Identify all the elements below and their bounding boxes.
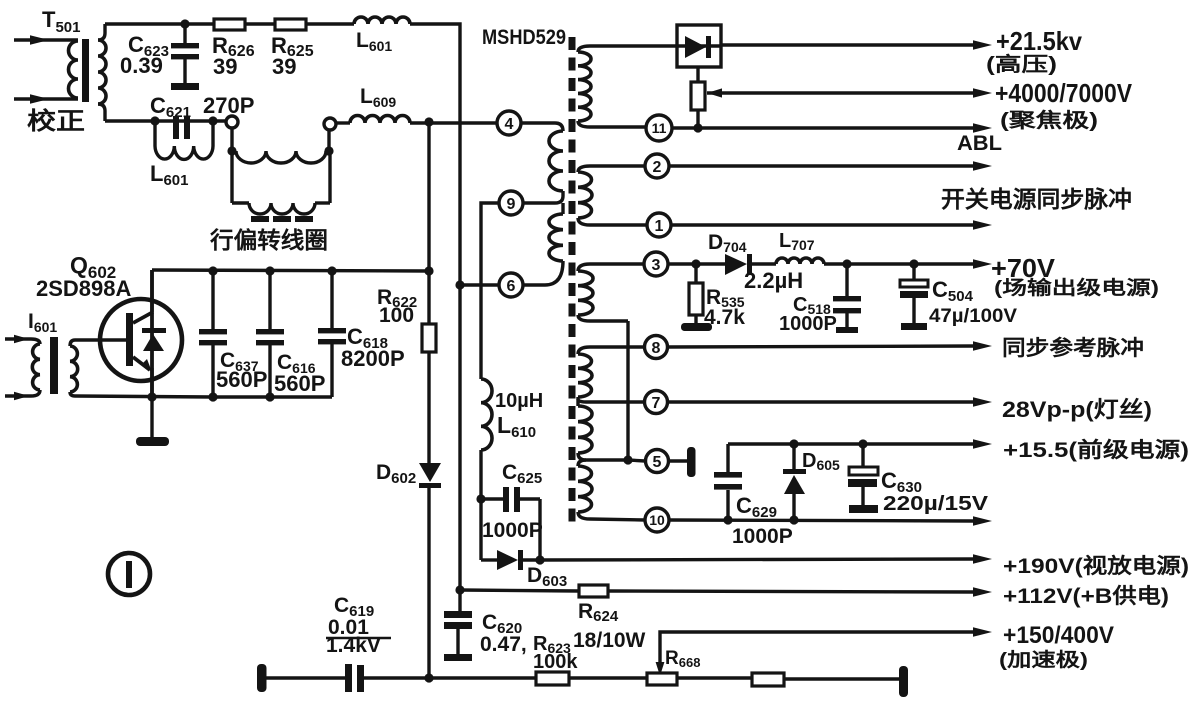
- node junction C629 bottom: [723, 515, 732, 524]
- svg-text:10: 10: [649, 512, 665, 528]
- node junction D605 bottom: [789, 515, 798, 524]
- resistor R624: [579, 585, 608, 597]
- svg-text:5: 5: [653, 454, 662, 471]
- HV rectifier diode block: [677, 25, 721, 67]
- svg-text:6: 6: [507, 278, 516, 295]
- inductor deflection coil upper: [236, 151, 326, 163]
- resistor R625: [275, 19, 306, 30]
- wire pin 7 output: [667, 400, 974, 403]
- flyback secondary winding W4: [578, 347, 645, 354]
- svg-text:28Vp-p(灯丝): 28Vp-p(灯丝): [1002, 397, 1152, 422]
- capacitor C621: [173, 116, 179, 139]
- wire pin 1 output: [671, 223, 974, 226]
- potentiometer focus: [691, 82, 705, 110]
- wire T501 secondary bottom lead: [98, 104, 105, 121]
- capacitor C623: [183, 24, 186, 43]
- pin 10: [645, 508, 669, 532]
- wire +21.5kV output: [721, 43, 974, 46]
- inductor deflection coil lower: [232, 201, 249, 204]
- svg-text:+190V(视放电源): +190V(视放电源): [1003, 554, 1189, 578]
- pin 11: [646, 115, 672, 141]
- wire pin 3 to D704: [668, 262, 725, 265]
- wire collector rail: [152, 270, 429, 271]
- wire emitter down: [150, 368, 153, 397]
- svg-text:+15.5(前级电源): +15.5(前级电源): [1003, 438, 1189, 462]
- svg-text:2: 2: [653, 159, 662, 176]
- svg-text:47µ/100V: 47µ/100V: [929, 306, 1017, 327]
- node junction D605 top: [789, 439, 798, 448]
- svg-text:+150/400V: +150/400V: [1003, 622, 1114, 649]
- transformer T601 primary winding: [31, 339, 40, 344]
- pin 1: [647, 213, 671, 237]
- flyback secondary winding W6: [578, 460, 586, 466]
- pin 2: [645, 154, 669, 178]
- node junction D603 output: [535, 555, 544, 564]
- pin 9: [499, 191, 523, 215]
- wire drive lead arrow 2: [5, 394, 31, 397]
- transformer T601 secondary winding: [70, 340, 75, 346]
- wire +150/400V output: [660, 632, 974, 662]
- node terminal circle right of deflection yoke: [324, 118, 336, 130]
- wire between R626 and R625: [245, 22, 275, 25]
- wire R625 to L601: [306, 22, 354, 25]
- svg-text:同步参考脉冲: 同步参考脉冲: [1002, 336, 1144, 360]
- wire pin 6 to vertical line: [460, 283, 499, 286]
- capacitor C518: [845, 264, 848, 296]
- inductor L610: [481, 379, 492, 450]
- node junction C621 left: [150, 116, 159, 125]
- node junction rail C637 top: [208, 266, 217, 275]
- ground bottom left: [257, 664, 267, 692]
- svg-text:39: 39: [213, 54, 237, 79]
- wire terminal to L609: [336, 121, 350, 124]
- svg-text:8200P: 8200P: [341, 346, 405, 371]
- wire top rail: [105, 22, 214, 25]
- svg-text:8: 8: [652, 340, 661, 357]
- wire to pin 5: [628, 460, 645, 461]
- transformer T501 primary winding: [69, 41, 79, 98]
- wire D704 to L707: [752, 262, 776, 265]
- flyback secondary winding W2: [578, 166, 647, 172]
- svg-text:1: 1: [655, 218, 664, 235]
- svg-text:1.4kV: 1.4kV: [326, 634, 381, 657]
- pin 5: [646, 450, 669, 473]
- pin 8: [645, 336, 668, 359]
- node junction rail C616 top: [265, 266, 274, 275]
- svg-text:(加速极): (加速极): [999, 648, 1088, 671]
- wire +112V line left of R624: [460, 590, 579, 591]
- node junction bottom rail: [424, 673, 433, 682]
- svg-text:+112V(+B供电): +112V(+B供电): [1003, 584, 1169, 608]
- flyback secondary winding W1: [578, 46, 677, 52]
- svg-text:(聚焦极): (聚焦极): [1000, 108, 1098, 132]
- svg-text:校正: 校正: [27, 107, 85, 135]
- pin 7: [645, 391, 668, 414]
- node junction emitter: [147, 392, 156, 401]
- wire bottom rail C619 to R623: [364, 676, 536, 679]
- wire +190V output: [540, 559, 974, 560]
- wire pin 8 output: [667, 346, 974, 347]
- flyback secondary winding W3: [578, 264, 644, 271]
- inductor L609: [350, 116, 410, 123]
- node junction yoke top-left: [227, 146, 236, 155]
- node junction C630 top: [858, 439, 867, 448]
- svg-text:1000P: 1000P: [732, 525, 793, 548]
- inductor L601 damping coil: [153, 121, 156, 146]
- wire collector up to rail: [150, 270, 153, 312]
- flyback primary winding lower: [561, 203, 564, 214]
- svg-text:7: 7: [652, 395, 661, 412]
- capacitor C625: [481, 497, 503, 500]
- svg-text:4: 4: [505, 116, 514, 133]
- pin 6: [499, 273, 523, 297]
- damper diode inside Q602: [142, 328, 166, 333]
- wire pin 9 left and down to L610: [481, 203, 499, 379]
- inductor L601 top: [354, 17, 410, 24]
- resistor R623: [536, 672, 569, 685]
- node junction ABL: [693, 123, 702, 132]
- svg-text:(场输出级电源): (场输出级电源): [994, 276, 1159, 299]
- svg-text:18/10W: 18/10W: [573, 629, 646, 652]
- transformer T501 secondary winding: [98, 40, 106, 104]
- wire base lead: [75, 338, 126, 341]
- wire bottom rail R623 to R668: [569, 676, 647, 679]
- svg-text:2.2µH: 2.2µH: [744, 268, 803, 293]
- symbol circled 1: [108, 553, 150, 595]
- wire bottom rail to right ground: [784, 677, 899, 680]
- capacitor C619: [345, 664, 352, 692]
- capacitor C629: [726, 444, 729, 472]
- wire drive lead arrow 1: [5, 337, 31, 340]
- diode D704: [725, 254, 747, 275]
- wire focus wiper output: [707, 91, 974, 94]
- diode D605: [792, 444, 795, 469]
- svg-text:+21.5kv: +21.5kv: [996, 26, 1082, 56]
- wire emitter to ground: [150, 397, 153, 437]
- wire HV block to focus pot: [696, 67, 699, 82]
- ground below Q602: [136, 437, 169, 446]
- node junction bottom rail C616: [265, 392, 274, 401]
- svg-text:270P: 270P: [203, 93, 254, 118]
- wire W3 bottom down to pin5 node: [626, 321, 629, 460]
- flyback primary winding upper: [549, 131, 563, 191]
- capacitor C504 (electrolytic): [912, 264, 915, 280]
- wire right leg up to terminal: [327, 130, 330, 151]
- wire +70V output: [824, 262, 974, 265]
- transformer T601 core: [50, 337, 58, 394]
- svg-text:1000P: 1000P: [779, 313, 837, 335]
- wire snubber box right side: [538, 499, 541, 560]
- wire R622 to D602: [427, 352, 430, 463]
- inductor L707: [776, 258, 824, 264]
- node junction +112V left: [455, 585, 464, 594]
- wire pin 2 output: [669, 164, 974, 167]
- node junction at L609 / vertical line: [424, 117, 433, 126]
- node junction C621 right: [208, 116, 217, 125]
- flyback secondary winding W5: [578, 406, 592, 453]
- ground bottom right: [899, 666, 908, 697]
- node junction yoke top-right: [324, 146, 333, 155]
- capacitor C616: [268, 271, 271, 329]
- svg-text:10µH: 10µH: [495, 390, 543, 412]
- resistor (unlabeled) on bottom rail: [752, 673, 784, 686]
- wire input lead arrow 2 into T501: [14, 97, 78, 100]
- wire tap to pin 7: [578, 399, 645, 402]
- wire pin 5 to ground: [669, 459, 687, 462]
- pin 3: [644, 252, 668, 276]
- resistor R668: [647, 673, 677, 685]
- wire left leg of deflection yoke: [230, 128, 233, 151]
- wire bottom rail R668 to next resistor: [677, 676, 752, 679]
- resistor R626: [214, 19, 245, 30]
- svg-text:9: 9: [507, 196, 516, 213]
- wire coil bottom to pin 6: [523, 261, 563, 285]
- pin 4: [497, 111, 521, 135]
- node junction C518: [842, 259, 851, 268]
- svg-text:+4000/7000V: +4000/7000V: [995, 78, 1133, 108]
- wire left leg lower of yoke: [230, 151, 233, 203]
- svg-text:ABL: ABL: [957, 132, 1002, 155]
- svg-text:(高压): (高压): [986, 52, 1057, 76]
- wire +15.5V rail: [728, 442, 974, 445]
- node junction L610 bottom: [476, 494, 485, 503]
- wire L601 to corner and down right side: [410, 24, 460, 588]
- svg-text:0.39: 0.39: [120, 53, 163, 78]
- wire +112V output: [608, 591, 974, 592]
- wire focus pot bottom to ABL line: [696, 110, 699, 129]
- svg-text:3: 3: [652, 257, 661, 274]
- svg-text:1000P: 1000P: [482, 519, 543, 542]
- svg-text:0.47,: 0.47,: [480, 633, 527, 656]
- node junction bottom rail C637: [208, 392, 217, 401]
- node junction top rail C623: [180, 19, 189, 28]
- wire emitter bottom rail: [75, 396, 332, 397]
- wire L609 to pin 4: [410, 121, 497, 124]
- wire input lead arrow 1 into T501: [14, 38, 78, 41]
- wire bottom of T501 loop: [105, 119, 226, 122]
- node junction pin6 net: [455, 280, 464, 289]
- flyback transformer core (dashed): [569, 37, 576, 522]
- capacitor C618: [330, 271, 333, 328]
- resistor R622: [422, 324, 436, 352]
- wire pin 10 output line: [669, 520, 974, 521]
- node junction collector rail right end: [424, 266, 433, 275]
- wire ABL output: [672, 126, 974, 129]
- transistor Q602: [100, 299, 182, 381]
- node junction C504: [909, 259, 918, 268]
- svg-text:11: 11: [652, 120, 667, 136]
- wire T501 secondary top to top rail: [98, 24, 105, 40]
- node junction pin 5 net: [623, 455, 632, 464]
- transformer T501 core: [82, 39, 89, 102]
- svg-text:39: 39: [272, 54, 296, 79]
- wire snubber box bottom with D603: [481, 558, 497, 561]
- wire D602 to bottom rail: [427, 488, 430, 678]
- node junction R535: [691, 259, 700, 268]
- svg-text:100: 100: [379, 304, 414, 327]
- capacitor C620: [458, 590, 461, 611]
- svg-text:2SD898A: 2SD898A: [36, 276, 132, 301]
- wire snubber box left side: [479, 499, 482, 560]
- node junction rail C618 top: [327, 266, 336, 275]
- ground at pin 5: [687, 447, 696, 477]
- wire bottom rail to C619: [266, 676, 345, 679]
- wire pin 4 to primary coil: [521, 123, 563, 131]
- node terminal circle left of deflection yoke: [226, 116, 238, 128]
- deflection coil core dashes: [251, 216, 269, 222]
- svg-text:560P: 560P: [216, 367, 267, 392]
- wire vertical line collector net: [427, 122, 430, 324]
- capacitor C637: [211, 271, 214, 329]
- resistor R535: [694, 264, 697, 283]
- svg-text:220µ/15V: 220µ/15V: [883, 493, 989, 515]
- svg-text:MSHD529: MSHD529: [482, 26, 566, 49]
- wire right leg lower of yoke: [328, 151, 331, 203]
- diode D603: [497, 550, 518, 570]
- svg-text:行偏转线圈: 行偏转线圈: [209, 227, 328, 253]
- svg-text:560P: 560P: [274, 371, 325, 396]
- ground below R535: [694, 315, 697, 324]
- svg-text:开关电源同步脉冲: 开关电源同步脉冲: [941, 186, 1132, 212]
- diode D602: [419, 463, 441, 482]
- svg-text:100k: 100k: [533, 651, 578, 673]
- wire tap to pin 9: [523, 196, 563, 203]
- capacitor C630 (electrolytic): [861, 444, 864, 467]
